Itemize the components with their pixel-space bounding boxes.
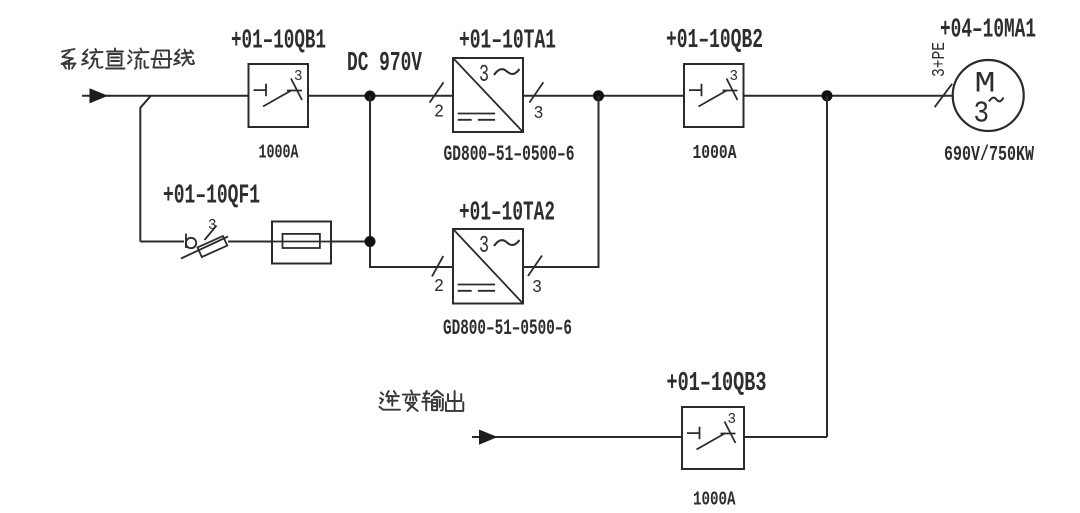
svg-text:2: 2 xyxy=(434,102,444,123)
svg-text:690V/750KW: 690V/750KW xyxy=(944,144,1034,167)
wire: main DC bus line to QB1 xyxy=(108,95,249,97)
svg-text:2: 2 xyxy=(434,276,444,297)
breaker QB1 xyxy=(249,64,309,127)
conductor slash 2 (TA2 input) xyxy=(432,256,443,277)
svg-text:3: 3 xyxy=(479,233,489,260)
arrow into DC bus line xyxy=(82,88,110,103)
wire: QB2 to motor xyxy=(744,95,952,97)
node: junction DC bus / TA2 branch xyxy=(365,91,376,102)
wire: vertical from DC node down to TA2 input row xyxy=(370,96,453,267)
converter U2 (TA2) xyxy=(453,229,523,304)
svg-text:+01–10QB2: +01–10QB2 xyxy=(666,26,763,56)
label 逆变输出 (inverter output) xyxy=(380,391,464,411)
conductor slash 3 (TA2 output) xyxy=(528,256,542,277)
svg-text:GD800–51–0500–6: GD800–51–0500–6 xyxy=(443,316,572,341)
svg-text:+01–10TA1: +01–10TA1 xyxy=(459,27,556,57)
svg-text:3: 3 xyxy=(728,411,737,428)
conductor slash 3+PE (motor feed) xyxy=(935,84,953,107)
wire: QF1 to fuse box xyxy=(228,241,272,243)
svg-text:3: 3 xyxy=(532,277,542,298)
svg-text:3: 3 xyxy=(974,97,990,132)
wire: TA2 output up to junction xyxy=(523,96,599,267)
svg-text:3: 3 xyxy=(534,103,544,124)
node: junction TA1 output / TA2 return xyxy=(593,90,604,101)
svg-text:1000A: 1000A xyxy=(693,142,737,164)
svg-text:M: M xyxy=(975,67,996,101)
conductor slash 2 (TA1 input) xyxy=(430,82,444,102)
wire: vertical from node down to QB3 row xyxy=(826,96,828,437)
svg-text:3: 3 xyxy=(294,68,303,85)
conductor slash 3 (TA1 output) xyxy=(529,82,543,102)
svg-text:+01–10QB3: +01–10QB3 xyxy=(667,369,767,399)
wire: QB3 to junction riser xyxy=(744,436,827,438)
fuse-switch QF1 xyxy=(181,226,228,259)
wire: QF1 feeder to fuse-switch xyxy=(140,241,184,243)
node: junction QF1 branch / TA2 feed xyxy=(365,236,376,247)
motor M1 xyxy=(953,60,1024,132)
svg-text:+01–10QB1: +01–10QB1 xyxy=(231,27,326,57)
wire: fuse box to branch node xyxy=(331,241,370,243)
breaker QB3 xyxy=(682,407,744,469)
fuse F1 in enclosure xyxy=(272,222,331,264)
svg-text:1000A: 1000A xyxy=(259,142,299,164)
wire: inverter output line to QB3 xyxy=(497,436,682,438)
wire: TA1 to QB2 xyxy=(523,95,684,97)
breaker QB2 xyxy=(684,64,744,127)
svg-text:1000A: 1000A xyxy=(693,489,736,511)
svg-text:3: 3 xyxy=(730,68,739,85)
svg-text:3: 3 xyxy=(479,62,489,89)
wire: QB1 to TA1 xyxy=(308,95,453,97)
svg-text:DC 970V: DC 970V xyxy=(347,49,423,79)
svg-text:+04–10MA1: +04–10MA1 xyxy=(940,16,1036,46)
wire: branch diagonal down to QF1 feeder xyxy=(140,96,151,242)
svg-text:+01–10QF1: +01–10QF1 xyxy=(163,182,260,212)
svg-text:+01–10TA2: +01–10TA2 xyxy=(459,199,555,229)
svg-text:3+PE: 3+PE xyxy=(930,42,950,77)
label 系统直流母线 (system DC bus) xyxy=(62,49,195,70)
svg-text:3: 3 xyxy=(208,217,217,234)
converter U1 (TA1) xyxy=(453,58,523,132)
svg-text:GD800–51–0500–6: GD800–51–0500–6 xyxy=(444,142,575,167)
arrow into inverter output line xyxy=(472,430,500,445)
node: junction QB2 output / QB3 branch xyxy=(822,90,833,101)
